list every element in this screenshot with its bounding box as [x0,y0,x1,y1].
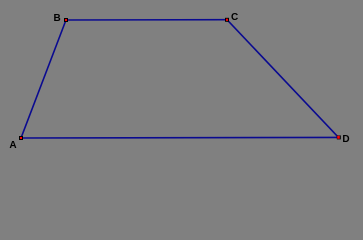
point B marker [64,18,68,22]
wire segment BC [66,19,227,21]
point D marker [337,135,341,139]
svg-text:D: D [342,134,349,145]
svg-text:C: C [231,12,238,23]
svg-text:A: A [9,140,16,151]
point C marker [225,18,229,22]
wire segment DA [21,136,339,139]
wire segment AB [21,20,66,138]
svg-text:B: B [54,13,61,24]
wire segment CD [227,20,339,138]
point A marker [19,136,23,140]
